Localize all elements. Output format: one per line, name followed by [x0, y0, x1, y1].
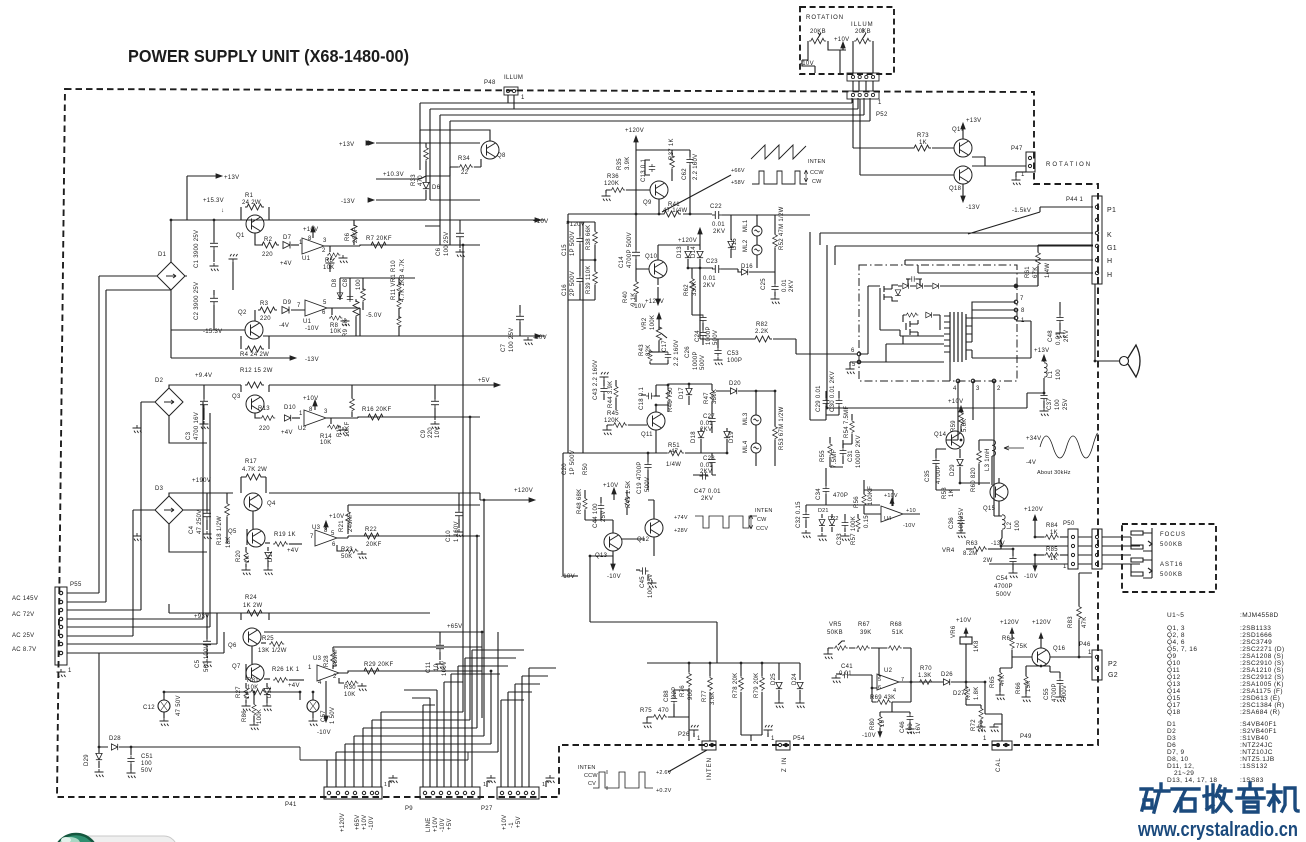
svg-text:Q7: Q7	[232, 664, 241, 670]
bridge D3	[155, 496, 183, 524]
wire R82 node	[700, 268, 857, 354]
svg-text:C9: C9	[421, 429, 427, 438]
svg-text:R37 1K: R37 1K	[669, 138, 675, 160]
svg-text:C48: C48	[1048, 330, 1054, 342]
resistor R55 vertical	[829, 437, 831, 443]
connector P48	[504, 87, 518, 95]
resistor R49 vertical	[626, 490, 628, 496]
mosfet2 flyback	[906, 320, 918, 336]
svg-text:4700P 500V: 4700P 500V	[627, 232, 633, 268]
svg-text:ILLUM: ILLUM	[504, 75, 523, 81]
svg-text:+10V: +10V	[433, 817, 439, 832]
svg-text::2SD613 (E): :2SD613 (E)	[1240, 695, 1280, 702]
svg-text:1: 1	[384, 782, 387, 788]
svg-text:CCW: CCW	[810, 170, 824, 176]
svg-text:+58V: +58V	[731, 180, 745, 186]
svg-text:G1: G1	[1107, 245, 1117, 252]
svg-text:1000P 2KV: 1000P 2KV	[856, 435, 862, 468]
svg-text:2KV: 2KV	[700, 469, 712, 475]
diode D20	[730, 388, 736, 394]
resistor R22	[362, 533, 381, 539]
svg-text:R44 3.9K: R44 3.9K	[608, 381, 614, 408]
svg-text:7: 7	[297, 303, 301, 309]
wire D3	[133, 493, 233, 552]
svg-text:U4: U4	[884, 516, 891, 522]
ground P47	[1015, 172, 1017, 177]
svg-text::1SS83: :1SS83	[1240, 777, 1264, 784]
svg-text::2SC2910 (S): :2SC2910 (S)	[1240, 660, 1284, 667]
connector P50 b	[1092, 529, 1102, 569]
svg-text:3.9K: 3.9K	[625, 156, 631, 170]
wire D28 node	[99, 653, 108, 747]
junction pins left flyback	[857, 352, 861, 356]
transistor Q12	[645, 519, 663, 537]
wire Q17/Q18 emitters to P47	[972, 157, 1026, 166]
svg-text:D19: D19	[729, 431, 735, 443]
resistor R80 vertical	[879, 712, 881, 716]
resistor R29	[362, 668, 381, 674]
svg-text:ML2: ML2	[743, 239, 749, 252]
capacitor C45	[636, 569, 640, 571]
svg-text:D6: D6	[432, 185, 441, 191]
resistor R19	[265, 542, 270, 544]
svg-text:-1: -1	[509, 822, 515, 828]
svg-text:C44 100: C44 100	[593, 503, 599, 528]
svg-text:R48 68K: R48 68K	[577, 489, 583, 514]
resistor R82	[753, 336, 772, 342]
svg-text:CCW: CCW	[584, 773, 598, 779]
svg-text:+10V: +10V	[362, 815, 368, 830]
svg-text:1000P: 1000P	[693, 351, 699, 370]
svg-text:900: 900	[688, 689, 694, 700]
resistor R4 bypass	[241, 336, 269, 349]
svg-text:C62: C62	[682, 168, 688, 180]
wire K G1 H lines to P44	[820, 233, 1093, 273]
svg-text:5: 5	[323, 300, 327, 306]
svg-text:2KV: 2KV	[701, 496, 713, 502]
resistor R84	[1035, 536, 1044, 538]
diode D7	[283, 242, 290, 249]
svg-text:D14: D14	[691, 246, 697, 258]
wire long down Q13	[590, 556, 717, 663]
svg-text:CCV: CCV	[756, 526, 768, 532]
svg-text:D17: D17	[679, 387, 685, 399]
svg-text:1: 1	[771, 736, 775, 742]
svg-text:D9: D9	[283, 300, 292, 306]
resistor R86 vertical	[253, 700, 255, 704]
svg-text:C41: C41	[841, 664, 853, 670]
capacitor C30	[838, 391, 840, 398]
svg-text:75K: 75K	[1016, 644, 1028, 650]
svg-text:25V: 25V	[1063, 398, 1069, 410]
svg-text:51K: 51K	[892, 630, 904, 636]
svg-text:C46: C46	[900, 721, 906, 733]
resistor R18 vertical	[226, 493, 228, 503]
op-amp U3b	[317, 665, 339, 681]
svg-text::2SA1005 (K): :2SA1005 (K)	[1240, 681, 1284, 688]
svg-text:8: 8	[324, 528, 328, 534]
potentiometer ILLUM	[854, 38, 871, 43]
svg-text:Q11: Q11	[641, 432, 653, 438]
resistor R37 vertical	[671, 150, 673, 155]
svg-text::NTZ24JC: :NTZ24JC	[1240, 742, 1273, 749]
svg-text:R1: R1	[245, 193, 254, 199]
svg-text:R43: R43	[639, 344, 645, 356]
svg-text:R81: R81	[247, 678, 259, 684]
resistor R27 vertical	[245, 683, 247, 688]
svg-text:1: 1	[1088, 650, 1092, 656]
svg-text:R63: R63	[966, 541, 978, 547]
svg-text:Q5: Q5	[228, 529, 237, 535]
svg-text:U2: U2	[298, 426, 307, 432]
svg-text:R86: R86	[242, 710, 248, 722]
svg-text:5: 5	[331, 531, 335, 537]
svg-text:-10V: -10V	[607, 574, 621, 580]
potentiometer AST16	[1131, 555, 1152, 578]
wire block D rail	[169, 604, 430, 620]
wire block B rail	[169, 385, 430, 392]
svg-text:C28: C28	[703, 456, 715, 462]
svg-text:C15: C15	[562, 244, 568, 256]
wire mid-left column verticals	[563, 222, 583, 576]
svg-text:+4V: +4V	[287, 548, 299, 554]
wire U3a out	[337, 505, 480, 538]
svg-text:D2: D2	[1167, 728, 1176, 735]
parts list	[1167, 612, 1285, 784]
svg-text:13K 1/2W: 13K 1/2W	[258, 648, 287, 654]
svg-text:R57 100K: R57 100K	[851, 516, 857, 545]
connector P46	[1092, 650, 1102, 680]
svg-text:500V: 500V	[996, 592, 1011, 598]
svg-text:+10V: +10V	[884, 493, 898, 499]
svg-text:R79 20K: R79 20K	[754, 673, 760, 698]
diode D24	[799, 663, 801, 680]
svg-text:D7, 9: D7, 9	[1167, 749, 1185, 756]
svg-text:D21: D21	[818, 508, 829, 514]
svg-text:+120V: +120V	[1032, 620, 1051, 626]
svg-text:C17: C17	[662, 340, 668, 352]
svg-text:D13: D13	[677, 246, 683, 258]
wire -10V Q10	[657, 287, 659, 300]
svg-text:330K: 330K	[712, 389, 718, 404]
svg-text:R7 20KF: R7 20KF	[366, 236, 392, 242]
dashed box FOCUS	[1122, 524, 1216, 592]
transistor Q1	[246, 215, 264, 233]
svg-text:C51: C51	[141, 754, 153, 760]
capacitor C6	[459, 220, 461, 231]
connector P49	[992, 741, 1012, 750]
svg-text:P50: P50	[1063, 521, 1075, 527]
svg-text:D24: D24	[792, 673, 798, 685]
svg-text:R82: R82	[756, 322, 768, 328]
resistor R44 vertical	[615, 380, 617, 386]
wire INTEN pointer	[668, 750, 707, 772]
junction pins bottom flyback	[956, 379, 960, 383]
svg-text:10K: 10K	[320, 440, 332, 446]
svg-text:D20: D20	[729, 381, 741, 387]
capacitor C23	[688, 267, 713, 269]
transistor Q16	[1032, 648, 1050, 666]
svg-text:D16: D16	[741, 264, 753, 270]
svg-text:-10V: -10V	[632, 304, 646, 310]
svg-text:6: 6	[878, 685, 881, 691]
svg-text:1/4W: 1/4W	[666, 462, 681, 468]
svg-text:P1: P1	[1107, 207, 1116, 214]
resistor R36	[610, 188, 625, 193]
capacitor C7	[519, 322, 521, 336]
wire -13V top	[376, 199, 480, 201]
svg-text::2SA1208 (S): :2SA1208 (S)	[1240, 653, 1284, 660]
potentiometer VR5	[828, 648, 833, 651]
resistor R30	[339, 678, 344, 683]
svg-text:Q9: Q9	[643, 200, 652, 206]
svg-text:C4: C4	[189, 525, 195, 534]
svg-text:-13V: -13V	[341, 199, 355, 205]
svg-text:R45: R45	[607, 411, 619, 417]
capacitor C41	[836, 673, 842, 675]
zener D8 / cap C8 / R10 VR1 R11 network	[340, 278, 415, 300]
wire -10V Q13	[611, 564, 615, 570]
resistor R3	[258, 307, 277, 313]
svg-text:R13: R13	[258, 406, 270, 412]
svg-text::S2VB40F1: :S2VB40F1	[1240, 728, 1277, 735]
svg-text:67K: 67K	[1033, 266, 1039, 278]
svg-text:2: 2	[997, 386, 1001, 392]
svg-text:D11, 12,: D11, 12,	[1167, 763, 1194, 770]
svg-text:-13V: -13V	[966, 205, 980, 211]
svg-text:R2: R2	[264, 237, 273, 243]
wire +120V arrow mid	[699, 230, 701, 246]
svg-text:Q4: Q4	[267, 501, 276, 507]
svg-text:+13V: +13V	[224, 175, 239, 181]
svg-text:10: 10	[434, 663, 440, 671]
svg-text:R3: R3	[260, 301, 269, 307]
wire -10V down	[325, 681, 327, 716]
ground P9	[487, 781, 491, 787]
wire riser P27	[501, 668, 556, 787]
svg-text:25V: 25V	[601, 510, 607, 522]
wire P1 line	[968, 207, 1093, 234]
resistor R48 vertical	[584, 490, 586, 498]
svg-text:Q2, 8: Q2, 8	[1167, 632, 1185, 639]
resistor R83 vertical	[1078, 600, 1080, 606]
svg-text:5: 5	[878, 677, 881, 683]
capacitor C32	[805, 505, 807, 512]
svg-text:120K: 120K	[604, 418, 619, 424]
svg-text:+120V: +120V	[678, 238, 697, 244]
svg-text:+65V: +65V	[447, 624, 462, 630]
svg-text:R20: R20	[236, 550, 242, 562]
svg-text:P46: P46	[1079, 642, 1091, 648]
wire U3b out	[333, 647, 482, 673]
svg-text:R30: R30	[344, 685, 356, 691]
svg-text:7: 7	[310, 534, 314, 540]
svg-text:470: 470	[418, 175, 424, 186]
transistor Q13	[604, 533, 622, 551]
svg-text:1: 1	[299, 240, 303, 246]
wire long vertical mid	[524, 650, 556, 787]
svg-text:P49: P49	[1020, 734, 1032, 740]
svg-text:R15: R15	[337, 425, 343, 437]
svg-text::NTZ10JC: :NTZ10JC	[1240, 749, 1273, 756]
svg-text:100K: 100K	[650, 315, 656, 330]
resistor R6 vertical	[353, 220, 355, 226]
svg-text:3: 3	[323, 238, 327, 244]
svg-text:R55: R55	[820, 450, 826, 462]
capacitor C27	[711, 410, 713, 416]
svg-text:D1: D1	[158, 252, 167, 258]
svg-text:+10V: +10V	[834, 37, 849, 43]
svg-text:+10V: +10V	[956, 618, 971, 624]
svg-text:100: 100	[1056, 369, 1062, 380]
svg-text:CW: CW	[812, 179, 822, 185]
svg-text:2P 500V: 2P 500V	[570, 271, 576, 296]
capacitor C35	[936, 449, 946, 458]
spark gap ML2	[752, 245, 762, 255]
svg-text:Q14: Q14	[934, 432, 947, 438]
svg-text:+4V: +4V	[280, 261, 292, 267]
diode D26	[943, 679, 949, 685]
capacitor C48	[1059, 302, 1061, 315]
capacitor C51	[130, 747, 132, 755]
svg-text:100K: 100K	[257, 709, 263, 724]
wire +10V Q14	[959, 406, 963, 412]
svg-text::2SA1175 (F): :2SA1175 (F)	[1240, 688, 1283, 695]
svg-text:-10V: -10V	[800, 61, 814, 67]
wire +120V R84	[1034, 517, 1036, 537]
svg-text:7: 7	[1020, 296, 1024, 302]
wire P52 down	[853, 99, 954, 175]
diode D10	[284, 415, 290, 421]
svg-text:470: 470	[658, 708, 669, 714]
svg-text:500V: 500V	[713, 330, 719, 345]
diode D18	[700, 428, 702, 431]
capacitor C47	[693, 474, 716, 476]
svg-text:-13V: -13V	[305, 357, 319, 363]
svg-text:6: 6	[851, 348, 855, 354]
svg-text:R4 24 2W: R4 24 2W	[240, 352, 269, 358]
svg-text:R34: R34	[458, 156, 470, 162]
svg-text:100: 100	[1015, 520, 1021, 531]
svg-text:D22: D22	[828, 516, 839, 522]
svg-text:1: 1	[983, 736, 987, 742]
svg-text:R80: R80	[870, 718, 876, 730]
svg-text:D28: D28	[109, 736, 121, 742]
wire U2a out to R16	[326, 417, 480, 418]
resistor R59 vertical	[960, 408, 962, 412]
svg-text:C27: C27	[703, 414, 715, 420]
svg-text::2SB1133: :2SB1133	[1240, 625, 1271, 632]
diode D9	[282, 307, 289, 314]
svg-text:C16: C16	[562, 284, 568, 296]
resistor R8	[327, 308, 332, 315]
transistor Q2	[245, 321, 263, 339]
diode D21	[821, 514, 823, 518]
svg-text:2KV: 2KV	[703, 283, 715, 289]
resistor R75	[652, 715, 667, 720]
svg-text:4: 4	[893, 688, 896, 694]
svg-text:+10.3V: +10.3V	[383, 172, 404, 178]
svg-text:0.01: 0.01	[1056, 332, 1062, 345]
capacitor C2	[210, 295, 218, 305]
svg-text:Q12: Q12	[637, 537, 650, 543]
wire pots to connector	[802, 50, 840, 73]
svg-text:+120V: +120V	[340, 813, 346, 832]
resistor R66 vertical	[1025, 672, 1027, 676]
resistor R85	[1035, 554, 1044, 556]
capacitor C18	[641, 394, 646, 396]
svg-text:D18: D18	[691, 431, 697, 443]
wire +13V Q17	[962, 125, 964, 139]
svg-text:R33: R33	[411, 174, 417, 186]
resistor R77 vertical	[709, 663, 711, 676]
op-amp U1a	[302, 238, 324, 254]
svg-text:+5V: +5V	[447, 818, 453, 830]
svg-text:R56: R56	[854, 496, 860, 508]
svg-text:R25: R25	[262, 636, 274, 642]
svg-text:Q10: Q10	[645, 254, 658, 260]
svg-text:47 1/4W: 47 1/4W	[663, 208, 687, 214]
svg-text:C23: C23	[706, 259, 718, 265]
svg-text:Q6: Q6	[228, 643, 237, 649]
svg-text::2SD1666: :2SD1666	[1240, 632, 1272, 639]
resistor R68	[888, 646, 902, 651]
svg-text:100 25V: 100 25V	[509, 328, 515, 352]
svg-text:2KV: 2KV	[789, 280, 795, 292]
svg-text:R49 1.5K: R49 1.5K	[626, 481, 632, 508]
transistor Q15	[990, 483, 1008, 501]
resistor R72 vertical	[980, 705, 982, 708]
wire +120V arrows Q16	[1010, 628, 1014, 633]
wire bundle P48 to P52	[420, 95, 870, 245]
svg-text:C3: C3	[186, 431, 192, 440]
svg-text:1000P: 1000P	[706, 326, 712, 345]
svg-text:500V: 500V	[1062, 685, 1068, 700]
svg-text:1: 1	[1021, 318, 1025, 324]
svg-text:R12 15 2W: R12 15 2W	[240, 368, 273, 374]
svg-text:10KF: 10KF	[345, 421, 351, 437]
svg-text:R70: R70	[920, 666, 932, 672]
wire +13V L1	[1043, 357, 1045, 362]
junction pins right flyback	[1014, 284, 1018, 288]
svg-text:100: 100	[1055, 399, 1061, 410]
svg-text:R76: R76	[680, 685, 686, 697]
svg-text:C31: C31	[848, 450, 854, 462]
capacitor C55	[1059, 672, 1061, 678]
svg-text:Q13: Q13	[595, 553, 608, 559]
svg-text:Q2: Q2	[238, 310, 247, 316]
svg-text:R53 67M 1/2W: R53 67M 1/2W	[779, 406, 785, 450]
svg-text:U3: U3	[312, 525, 321, 531]
svg-text:16V: 16V	[916, 722, 922, 734]
ground P55	[57, 669, 66, 677]
svg-text:8.2M: 8.2M	[963, 551, 978, 557]
ground P26	[693, 733, 695, 737]
svg-text:470P: 470P	[833, 493, 848, 499]
resistor R14	[326, 418, 331, 424]
svg-text:50V: 50V	[141, 768, 153, 774]
potentiometer VR2	[656, 325, 661, 342]
transistor Q18	[954, 166, 972, 184]
capacitor C9	[434, 385, 436, 399]
svg-text::2SC2271 (D): :2SC2271 (D)	[1240, 646, 1285, 653]
svg-text:100: 100	[141, 761, 152, 767]
svg-text:R26 1K 1: R26 1K 1	[272, 667, 300, 673]
svg-text:50K: 50K	[341, 554, 353, 560]
diode D29	[98, 747, 100, 753]
svg-text:D26: D26	[941, 672, 953, 678]
resistor R73	[912, 145, 931, 151]
